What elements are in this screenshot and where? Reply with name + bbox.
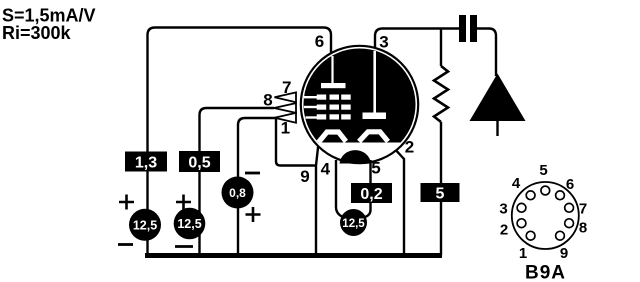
polarity sign + (0,8 bottom)	[246, 207, 261, 222]
meter circle 12,5 #2	[174, 208, 206, 240]
svg-text:7: 7	[282, 78, 291, 97]
svg-text:1,3: 1,3	[135, 155, 157, 172]
screen grid bar (pin 6) white	[321, 83, 346, 88]
svg-text:5: 5	[371, 159, 380, 178]
heater pin 4 wire	[336, 160, 343, 217]
svg-text:6: 6	[566, 176, 574, 193]
wire: pin 1 down to cathode node	[276, 119, 316, 166]
wire: resistor bottom through 5-box to bus	[440, 122, 442, 255]
svg-text:9: 9	[300, 167, 309, 186]
wire: pin 1 branch (0,8 branch)	[238, 118, 276, 255]
polarity sign - (branch 2)	[175, 245, 193, 248]
tube envelope circle	[301, 46, 418, 163]
lead-in chevron pin 1	[275, 113, 297, 123]
polarity sign + (branch 1)	[119, 195, 134, 210]
voltage box 0,2	[351, 183, 392, 203]
wire: grid pin 8 branch (0,5 branch)	[200, 108, 275, 255]
svg-text:4: 4	[321, 160, 331, 179]
cathode chevron left (white)	[319, 132, 347, 142]
svg-text:9: 9	[560, 245, 568, 262]
tube interior black fill (chord-cut at bottom)	[304, 48, 416, 142]
parameter text S and Ri	[2, 6, 96, 44]
wire: pin 3 up and right to capacitor	[375, 29, 459, 52]
svg-text:1: 1	[519, 245, 527, 262]
B9A pin 5 hole	[541, 186, 550, 195]
svg-text:1: 1	[281, 119, 290, 138]
B9A pin 2 hole	[517, 219, 526, 228]
output arrow triangle	[470, 74, 526, 122]
wire: resistor branch down from top wire	[440, 29, 442, 67]
meter circle 12,5 heater	[340, 209, 367, 236]
B9A pin 1 hole	[526, 231, 535, 240]
B9A pin 9 hole	[556, 231, 565, 240]
anode bar white	[363, 113, 387, 120]
meter circle 12,5 #1	[129, 209, 161, 241]
B9A base outline circle	[512, 182, 579, 249]
B9A pin 3 hole	[517, 203, 526, 212]
svg-text:6: 6	[315, 32, 324, 51]
grid dashes row 3	[317, 114, 327, 119]
svg-text:0,2: 0,2	[360, 186, 382, 203]
wire: left branch vertical + top horizontal to pin 6	[148, 28, 332, 256]
capacitor C (coupling) left plate	[459, 15, 466, 42]
anode lead white (pin 3)	[373, 51, 376, 113]
heater pin 5 wire	[365, 160, 371, 217]
wire: stub below triangle	[496, 121, 498, 136]
resistor R (anode load)	[434, 66, 448, 122]
svg-text:12,5: 12,5	[177, 217, 201, 231]
meter circle 0,8	[222, 177, 254, 209]
lead-in chevron pin 7	[275, 92, 297, 102]
grid lead whites	[304, 97, 318, 117]
svg-text:7: 7	[579, 201, 587, 218]
svg-text:8: 8	[263, 91, 272, 110]
voltage box 1,3	[125, 152, 167, 172]
ground bus	[145, 253, 442, 258]
wire: cathode pin 9 down to bus	[316, 143, 319, 255]
capacitor C right plate	[470, 15, 477, 42]
svg-text:3: 3	[499, 201, 507, 218]
svg-text:12,5: 12,5	[133, 218, 157, 232]
svg-text:0,8: 0,8	[229, 186, 246, 200]
svg-text:12,5: 12,5	[342, 218, 365, 230]
pin 6 inner lead white	[331, 56, 333, 83]
wire: pin 2 down to bus	[387, 141, 404, 256]
grid dashes row 2	[317, 105, 327, 110]
B9A pin 4 hole	[526, 191, 535, 200]
B9A pin 6 hole	[556, 191, 565, 200]
voltage box 5	[421, 183, 460, 203]
polarity sign - (0,8 top)	[245, 172, 260, 175]
voltage box 0,5	[179, 151, 220, 172]
wire: capacitor to output arrow	[477, 29, 496, 77]
cathode chevron right (white)	[359, 132, 388, 142]
lead-in chevron pin 8	[274, 103, 296, 113]
heater dome black	[340, 150, 372, 163]
svg-text:Ri=300k: Ri=300k	[2, 23, 72, 43]
svg-text:B9A: B9A	[525, 263, 566, 282]
svg-text:5: 5	[539, 162, 547, 179]
polarity sign - (branch 1)	[118, 243, 133, 246]
svg-text:2: 2	[405, 138, 414, 157]
B9A pin 8 hole	[565, 219, 574, 228]
polarity sign + (branch 2)	[176, 195, 191, 210]
svg-text:5: 5	[436, 186, 445, 203]
B9A pin 7 hole	[565, 203, 574, 212]
svg-text:2: 2	[500, 222, 508, 239]
svg-text:8: 8	[579, 220, 587, 237]
grid dashes row 1	[317, 95, 351, 120]
svg-text:3: 3	[379, 33, 388, 52]
svg-text:0,5: 0,5	[188, 155, 210, 172]
svg-text:4: 4	[512, 175, 521, 192]
